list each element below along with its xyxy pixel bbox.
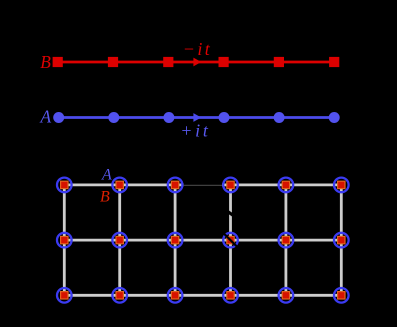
square row2 col6 [338, 236, 345, 243]
ring row3 col4 [223, 288, 238, 303]
bond col3 vertical [174, 185, 177, 295]
square row3 col5 [282, 292, 289, 299]
square row1 col2 [116, 181, 123, 188]
black cut mark on bond col4 rows1-2 [227, 211, 234, 216]
svg-text:B: B [100, 188, 110, 205]
square row1 col6 [338, 181, 345, 188]
square row2 col2 [116, 236, 123, 243]
chain A site 4 (circle) [219, 112, 230, 123]
chain A site 3 (circle) [163, 112, 174, 123]
ring row3 col6 [334, 288, 349, 303]
square row1 col5 [282, 181, 289, 188]
chain A wire [59, 116, 335, 119]
ring row3 col3 [168, 288, 183, 303]
chain A site 1 (circle) [53, 112, 64, 123]
ring row2 col1 [57, 233, 72, 248]
square row3 col3 [171, 292, 178, 299]
chain B site 4 (square) [219, 57, 229, 67]
square row2 col3 [171, 236, 178, 243]
chain B site 3 (square) [163, 57, 173, 67]
chain A site 5 (circle) [274, 112, 285, 123]
ring row2 col2 [112, 233, 127, 248]
bond col2 vertical [118, 185, 121, 295]
svg-text:A: A [101, 167, 112, 184]
chain B site 2 (square) [108, 57, 118, 67]
lattice bonds [64, 185, 341, 295]
svg-text:A: A [40, 107, 52, 127]
ring row1 col5 [279, 178, 294, 193]
ring row2 col3 [168, 233, 183, 248]
ring row1 col4 [223, 178, 238, 193]
square row2 col4 [227, 236, 234, 243]
ring row1 col6 [334, 178, 349, 193]
bond row1 cols1-3 [64, 183, 175, 186]
square row2 col1 [61, 236, 68, 243]
chain B site 5 (square) [274, 57, 284, 67]
svg-text:−it: −it [183, 39, 212, 59]
lattice site rings (blue circles) [57, 178, 349, 303]
chain A site 2 (circle) [108, 112, 119, 123]
bond row1 cols4-6 [231, 183, 342, 186]
bond col1 vertical [63, 185, 66, 295]
black slash through removed site row2 col4 [223, 233, 238, 248]
chain B site 6 (square) [329, 57, 339, 67]
stub left of site row1 col4 [222, 183, 231, 186]
svg-text:B: B [40, 52, 51, 72]
ring row2 col4 [223, 233, 238, 248]
chain B arrowhead -it direction [193, 58, 201, 67]
ring row3 col1 [57, 288, 72, 303]
square row1 col3 [171, 181, 178, 188]
ring row1 col1 [57, 178, 72, 193]
ring row2 col6 [334, 233, 349, 248]
bond col6 vertical [340, 185, 343, 295]
stub right of site row1 col3 [175, 183, 184, 186]
chain B site 1 (square) [53, 57, 63, 67]
square row3 col2 [116, 292, 123, 299]
svg-text:+it: +it [180, 121, 211, 141]
bond row3 cols1-6 [64, 294, 341, 297]
square row1 col4 [227, 181, 234, 188]
chain A site 6 (circle) [329, 112, 340, 123]
ring row1 col2 [112, 178, 127, 193]
ring row1 col3 [168, 178, 183, 193]
ring row2 col5 [279, 233, 294, 248]
square row3 col6 [338, 292, 345, 299]
chain B wire [58, 61, 335, 64]
bond col5 vertical [284, 185, 287, 295]
chain A arrowhead +it direction [193, 113, 201, 122]
ring row3 col5 [279, 288, 294, 303]
lattice site squares (red with orange edge) [61, 181, 345, 299]
square row3 col4 [227, 292, 234, 299]
square row2 col5 [282, 236, 289, 243]
bond col4 vertical [229, 185, 232, 295]
bond row2 cols1-6 [64, 239, 341, 242]
square row3 col1 [61, 292, 68, 299]
weak bond row1 col3-col4 (thin dark) [184, 184, 222, 186]
ring row3 col2 [112, 288, 127, 303]
square row1 col1 [61, 181, 68, 188]
